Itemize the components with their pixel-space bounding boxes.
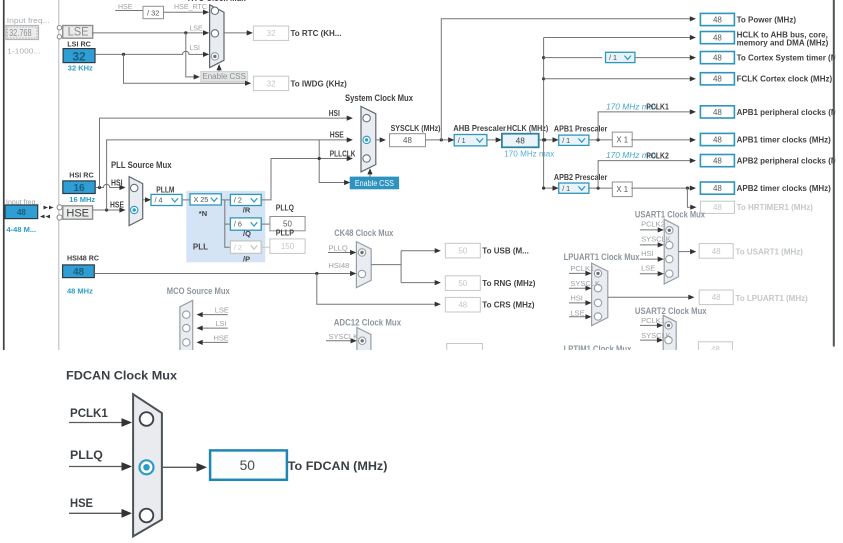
- svg-text:To RTC (KH...: To RTC (KH...: [291, 29, 342, 38]
- svg-text:LSE: LSE: [641, 264, 655, 273]
- svg-text:32: 32: [72, 49, 86, 63]
- svg-text:48: 48: [713, 34, 722, 43]
- svg-text:APB1 peripheral clocks (MHz): APB1 peripheral clocks (MHz): [737, 108, 843, 117]
- svg-text:48: 48: [712, 247, 721, 256]
- svg-text:X 25: X 25: [194, 195, 209, 204]
- svg-text:/ 6: / 6: [234, 220, 242, 229]
- svg-text:LPUART1 Clock Mux: LPUART1 Clock Mux: [564, 252, 640, 262]
- svg-text:48: 48: [713, 108, 722, 117]
- svg-text:PCLK1: PCLK1: [646, 102, 669, 112]
- svg-text:USART1 Clock Mux: USART1 Clock Mux: [635, 210, 705, 220]
- svg-text:PLLCLK: PLLCLK: [330, 148, 356, 158]
- svg-text:memory and DMA (MHz): memory and DMA (MHz): [737, 39, 829, 48]
- svg-text:HSI48 RC: HSI48 RC: [67, 254, 100, 263]
- svg-text:/R: /R: [243, 206, 251, 215]
- svg-text:50: 50: [458, 279, 467, 288]
- svg-text:AHB Prescaler: AHB Prescaler: [453, 123, 506, 133]
- svg-text:To LPUART1 (MHz): To LPUART1 (MHz): [736, 294, 809, 303]
- svg-text:HSE: HSE: [118, 4, 133, 11]
- svg-text:48 MHz: 48 MHz: [67, 287, 93, 296]
- svg-text:APB1 timer clocks (MHz): APB1 timer clocks (MHz): [737, 135, 832, 144]
- svg-text:LSI: LSI: [215, 319, 226, 328]
- svg-text:LSI RC: LSI RC: [67, 40, 91, 49]
- svg-text:1-1000...: 1-1000...: [7, 49, 40, 56]
- svg-text:LSE: LSE: [570, 308, 584, 317]
- svg-text:/Q: /Q: [243, 229, 251, 238]
- svg-text:16 MHz: 16 MHz: [69, 195, 95, 204]
- svg-text:HSI: HSI: [570, 294, 583, 303]
- svg-text:PLL: PLL: [193, 243, 208, 252]
- svg-text:SYSCLK: SYSCLK: [570, 279, 600, 288]
- svg-text:PCLK1: PCLK1: [570, 264, 594, 273]
- svg-text:X 1: X 1: [616, 135, 628, 144]
- svg-text:To Cortex System timer (MHz): To Cortex System timer (MHz): [737, 54, 843, 63]
- svg-text:LSE: LSE: [68, 27, 89, 39]
- svg-text:48: 48: [713, 75, 722, 84]
- svg-text:HSI RC: HSI RC: [69, 171, 93, 180]
- svg-text:*N: *N: [199, 209, 207, 218]
- svg-text:To RNG (MHz): To RNG (MHz): [482, 279, 536, 288]
- svg-text:To FDCAN (MHz): To FDCAN (MHz): [288, 459, 388, 473]
- svg-text:HSE_RTC: HSE_RTC: [174, 2, 207, 11]
- svg-text:HSI48: HSI48: [329, 261, 350, 270]
- svg-text:48: 48: [458, 301, 467, 310]
- svg-text:LSE: LSE: [190, 26, 204, 33]
- svg-text:System Clock Mux: System Clock Mux: [345, 93, 413, 103]
- svg-text:50: 50: [283, 220, 292, 229]
- svg-text:HSE: HSE: [70, 496, 93, 510]
- svg-text:48: 48: [713, 203, 722, 212]
- svg-text:/ 1: / 1: [458, 136, 466, 145]
- svg-text:APB2 peripheral clocks (MHz): APB2 peripheral clocks (MHz): [737, 157, 843, 166]
- svg-text:FCLK Cortex clock (MHz): FCLK Cortex clock (MHz): [737, 75, 833, 84]
- svg-text:To Power (MHz): To Power (MHz): [737, 15, 797, 24]
- svg-text:/ 2: / 2: [234, 243, 242, 252]
- svg-text:50: 50: [240, 458, 255, 473]
- svg-text:48: 48: [17, 208, 26, 217]
- svg-text:48: 48: [713, 135, 722, 144]
- svg-text:PLLQ: PLLQ: [70, 448, 103, 462]
- svg-text:HSE: HSE: [66, 208, 89, 220]
- svg-text:PLLQ: PLLQ: [329, 243, 348, 252]
- svg-text:To CRS (MHz): To CRS (MHz): [482, 301, 535, 310]
- svg-text:/ 1: / 1: [562, 136, 570, 145]
- svg-text:APB1 Prescaler: APB1 Prescaler: [554, 124, 608, 134]
- svg-text:48: 48: [712, 293, 721, 302]
- svg-text:50: 50: [458, 247, 467, 256]
- svg-text:X 1: X 1: [616, 185, 628, 194]
- svg-text:PLLM: PLLM: [156, 185, 174, 194]
- svg-text:LSE: LSE: [215, 305, 229, 314]
- svg-text:48: 48: [713, 184, 722, 193]
- svg-text:To USART1 (MHz): To USART1 (MHz): [736, 248, 804, 257]
- svg-text:SYSCLK: SYSCLK: [641, 331, 671, 340]
- svg-text:170 MHz max: 170 MHz max: [504, 149, 554, 158]
- svg-text:SYSCLK: SYSCLK: [641, 235, 671, 244]
- svg-text:APB2 timer clocks (MHz): APB2 timer clocks (MHz): [737, 184, 832, 193]
- svg-text:PLLQ: PLLQ: [276, 204, 294, 213]
- svg-text:LSI: LSI: [190, 45, 201, 52]
- svg-text:HSE: HSE: [330, 130, 344, 140]
- svg-text:To IWDG (KHz): To IWDG (KHz): [291, 79, 348, 88]
- svg-text:48: 48: [711, 345, 720, 354]
- svg-text:/ 2: / 2: [234, 196, 242, 205]
- svg-text:/ 1: / 1: [562, 184, 570, 193]
- svg-text:4-48 M...: 4-48 M...: [7, 225, 37, 234]
- svg-text:48: 48: [713, 157, 722, 166]
- svg-text:32: 32: [267, 79, 276, 88]
- svg-text:PCLK2: PCLK2: [646, 150, 669, 160]
- svg-text:/ 32: / 32: [147, 8, 160, 17]
- svg-text:Enable CSS: Enable CSS: [202, 72, 246, 81]
- svg-text:Enable CSS: Enable CSS: [355, 179, 394, 188]
- svg-text:CK48 Clock Mux: CK48 Clock Mux: [334, 228, 393, 238]
- svg-text:PCLK1: PCLK1: [70, 406, 108, 420]
- svg-text:16: 16: [73, 183, 85, 194]
- svg-text:32: 32: [267, 29, 276, 38]
- svg-text:PCLK1: PCLK1: [641, 316, 665, 325]
- svg-text:HSI: HSI: [641, 249, 654, 258]
- svg-text:PCLK2: PCLK2: [641, 220, 665, 229]
- svg-text:APB2 Prescaler: APB2 Prescaler: [554, 172, 608, 182]
- svg-text:HSI: HSI: [329, 108, 340, 118]
- svg-text:/ 4: / 4: [155, 196, 163, 205]
- svg-text:USART2 Clock Mux: USART2 Clock Mux: [635, 306, 707, 316]
- svg-text:SYSCLK (MHz): SYSCLK (MHz): [391, 123, 441, 133]
- svg-text:FDCAN Clock Mux: FDCAN Clock Mux: [66, 369, 177, 383]
- svg-text:MCO Source Mux: MCO Source Mux: [167, 286, 230, 296]
- svg-text:32 KHz: 32 KHz: [68, 64, 93, 73]
- svg-text:48: 48: [73, 267, 85, 278]
- svg-text:LPTIM1 Clock Mux: LPTIM1 Clock Mux: [564, 344, 632, 354]
- svg-text:/ 1: / 1: [609, 53, 617, 62]
- svg-text:PLL Source Mux: PLL Source Mux: [111, 160, 172, 170]
- svg-text:48: 48: [403, 136, 412, 145]
- svg-text:48: 48: [713, 54, 722, 63]
- svg-text:150: 150: [281, 242, 295, 251]
- svg-text:PLLP: PLLP: [276, 229, 294, 238]
- svg-text:48: 48: [713, 15, 722, 24]
- svg-text:48: 48: [516, 136, 526, 146]
- svg-text:/P: /P: [243, 255, 250, 264]
- svg-text:HSE: HSE: [110, 199, 124, 209]
- svg-text:32.768: 32.768: [9, 28, 32, 39]
- svg-text:To USB (M...: To USB (M...: [482, 247, 529, 256]
- svg-text:HSE: HSE: [214, 333, 229, 342]
- svg-text:ADC12 Clock Mux: ADC12 Clock Mux: [334, 317, 401, 327]
- svg-text:HCLK (MHz): HCLK (MHz): [507, 123, 549, 133]
- svg-text:To HRTIMER1 (MHz): To HRTIMER1 (MHz): [737, 203, 814, 212]
- svg-text:Input freq...: Input freq...: [7, 18, 50, 25]
